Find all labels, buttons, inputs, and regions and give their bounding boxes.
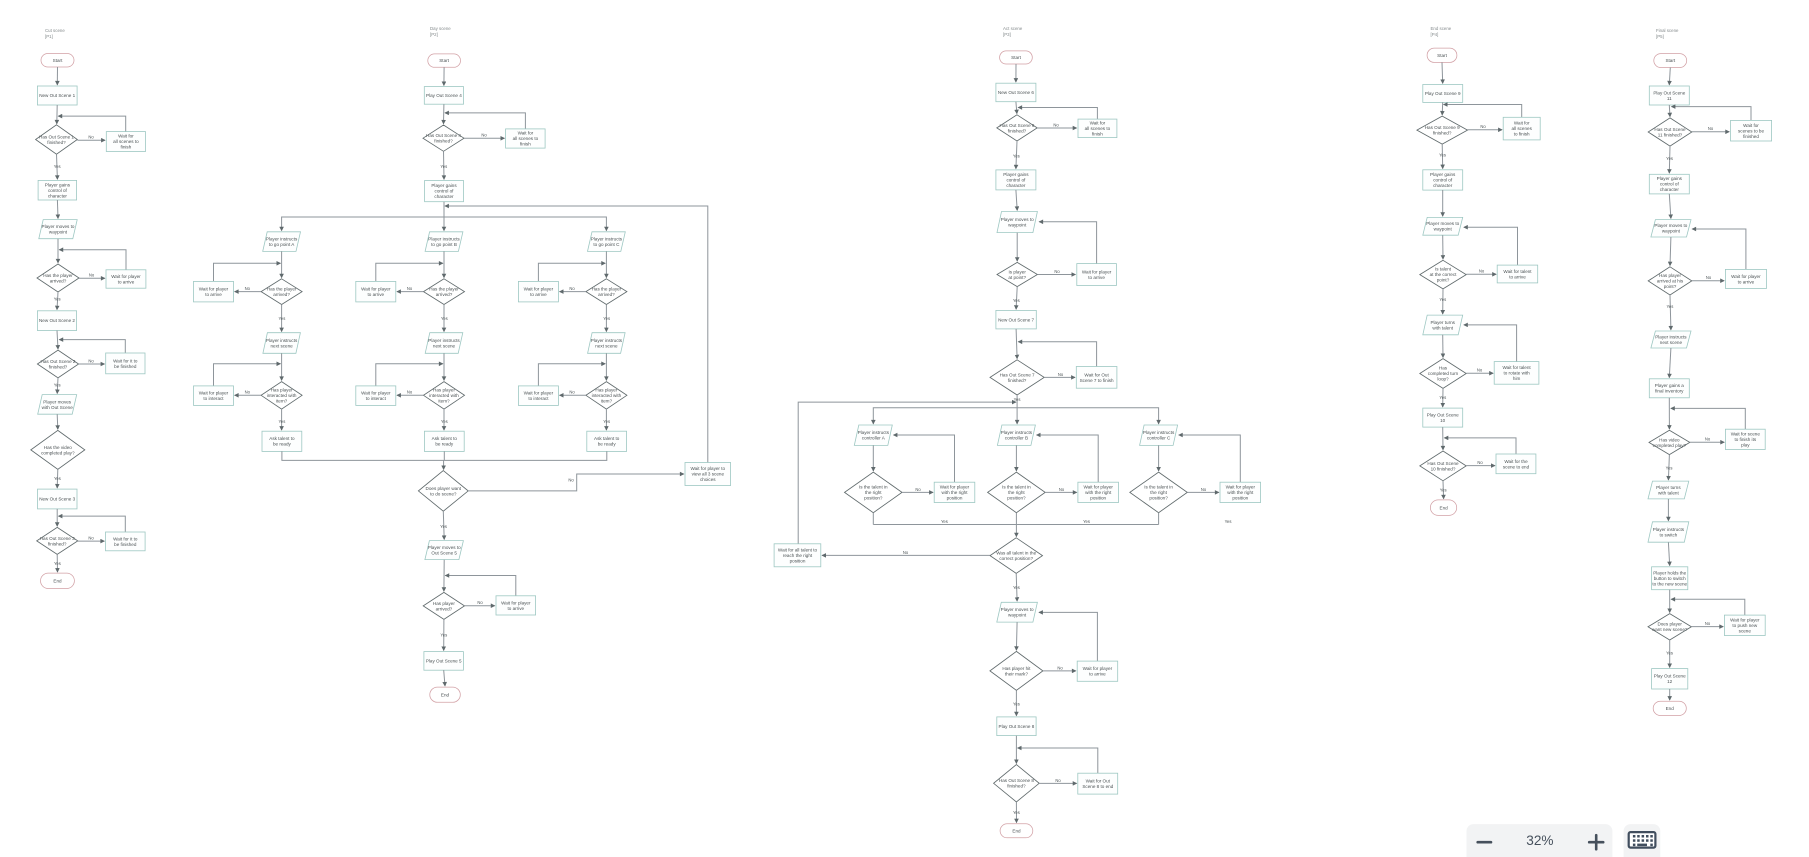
- svg-text:Yes: Yes: [1014, 397, 1021, 402]
- svg-text:Does player wantto do scene?: Does player wantto do scene?: [426, 486, 462, 497]
- svg-text:Has the videocompleted play?: Has the videocompleted play?: [41, 445, 75, 456]
- wire Yes down (flow 2 branch A d1): [281, 305, 283, 332]
- wire to decision (flow 3 d1): [1016, 102, 1017, 114]
- wire Yes stub (flow 3 branch A): [872, 513, 874, 525]
- process Wait for scenes to be finished (flow 5): [1731, 120, 1772, 141]
- data Player instructs next scene (flow 2 branch B): [425, 333, 463, 354]
- wire No to wait (flow 3 d6): [1039, 782, 1077, 784]
- process Wait for player to arrive (flow 3 lower): [1077, 661, 1118, 681]
- decision Is the talent in the right position? (flow 3 branch A): [845, 472, 903, 513]
- svg-text:End: End: [53, 578, 62, 583]
- wire Yes down (flow 1 d1): [56, 154, 59, 179]
- svg-text:No: No: [1053, 122, 1059, 127]
- decision Has Out Scene 9 finished? (flow 4): [1417, 116, 1468, 144]
- wire Yes down (flow 2 branch B d2): [443, 409, 445, 430]
- wire No to wait (flow 1 d1): [77, 139, 105, 141]
- svg-text:Yes: Yes: [1083, 519, 1090, 524]
- wire Yes down (flow 4 d2): [1442, 289, 1444, 314]
- process Player gains control of character (flow 3): [996, 170, 1036, 190]
- wire to waypoint data (flow 1): [56, 200, 59, 218]
- process Wait for player to arrive (flow 2 branch C): [518, 281, 558, 302]
- data Player instructs to go point B: [425, 232, 463, 252]
- wire data->decision2 (flow 2 branch A): [281, 353, 283, 380]
- data Player instructs next scene (flow 2 branch A): [263, 333, 301, 354]
- wire data->decision2 (flow 2 branch C): [605, 353, 607, 380]
- wire No to wait (flow 2 d2): [465, 605, 495, 607]
- wire loop wait->data right edge (flow 3 branch A): [894, 435, 955, 482]
- wire Yes down (flow 4 d3): [1442, 388, 1444, 407]
- decision Has Out Scene 1 finished? (flow 1): [36, 125, 78, 154]
- wire loop wait->data right edge (flow 3 lower): [1039, 612, 1097, 661]
- wire Start->Play Out Scene 11: [1669, 68, 1670, 85]
- decision Has the player arrived? (flow 2 branch A): [261, 279, 302, 305]
- wire Yes stub (flow 3 branch C): [1158, 513, 1160, 525]
- svg-text:No: No: [88, 135, 94, 140]
- wire merge->central decision (flow 2): [443, 460, 445, 469]
- wire No to wait (flow 3 lower d): [1043, 670, 1076, 672]
- process Player holds the button to switch to the new scene: [1652, 567, 1688, 590]
- wire Start->New Out Scene 6: [1015, 64, 1017, 82]
- wire split left branch (flow 3): [873, 408, 1017, 424]
- svg-text:End: End: [1440, 505, 1449, 510]
- wire data->decision (flow 3 branch C): [1158, 445, 1160, 471]
- svg-text:No: No: [1706, 275, 1712, 280]
- data Player moves to waypoint (flow 3 lower): [997, 602, 1038, 622]
- decision Has Out Scene 8 finished? (flow 3): [994, 765, 1040, 802]
- process Ask talent to be ready (flow 2 branch A): [262, 431, 302, 451]
- decision Has Out Scene 10 finished? (flow 4): [1420, 451, 1466, 481]
- process New Out Scene 3: [38, 489, 78, 509]
- process Player gains control of character (flow 5): [1649, 174, 1689, 194]
- wire to decision (flow 4 d4): [1442, 427, 1444, 450]
- data Player instructs controller C: [1140, 425, 1178, 445]
- svg-text:Wait for it tobe finished: Wait for it tobe finished: [113, 536, 138, 547]
- svg-text:End: End: [441, 692, 450, 697]
- wire to decision (flow 1 d3): [57, 331, 58, 350]
- terminator End (flow 4): [1430, 500, 1456, 516]
- process Wait for player with the right position (flow 3 branch B): [1078, 482, 1119, 502]
- wire loop wait->junction (flow 2 branch C d1): [538, 263, 605, 281]
- decision Has player arrived at his point? (flow 5): [1648, 267, 1692, 295]
- process Wait for player to arrive (flow 3 d2): [1077, 264, 1117, 286]
- process Wait for scene to finish its play (flow 5): [1725, 429, 1765, 449]
- wire data->decision (flow 3 branch A): [872, 445, 874, 471]
- process Wait for player to interact (flow 2 branch B): [356, 386, 396, 406]
- wire loop wait->junction (flow 4 d1): [1444, 105, 1522, 118]
- decision Has Out Scene 7 finished? (flow 3): [990, 360, 1044, 395]
- wire No to wait (flow 2 branch A d1): [235, 291, 261, 293]
- svg-text:Yes: Yes: [1013, 585, 1020, 590]
- process Wait for Out Scene 7 to finish: [1076, 367, 1117, 389]
- wire data->decision (flow 3 lower): [1015, 622, 1018, 650]
- wire No to wait (flow 2 d1): [464, 137, 504, 139]
- svg-text:No: No: [88, 536, 94, 541]
- wire split middle branch (flow 3): [1016, 395, 1018, 424]
- svg-text:Player instructsto go point A: Player instructsto go point A: [266, 237, 298, 248]
- wire No to wait (flow 3 branch C): [1187, 491, 1219, 493]
- svg-text:Player turnswith talent: Player turnswith talent: [1656, 485, 1681, 496]
- svg-text:Yes: Yes: [54, 561, 61, 566]
- wire to decision (flow 5 d1): [1668, 105, 1671, 117]
- decision Has Out Scene 6 finished? (flow 3): [997, 115, 1037, 141]
- svg-text:Yes: Yes: [1225, 519, 1232, 524]
- process Wait for all scenes to finish (flow 4): [1503, 117, 1540, 140]
- wire loop wait->junction (flow 3 d6): [1018, 748, 1098, 773]
- wire loop view-scenes box->junction (flow 2): [445, 206, 708, 463]
- wire to data (flow 4): [1442, 190, 1444, 216]
- svg-text:End: End: [1012, 828, 1021, 833]
- wire Yes down (flow 1 d2): [57, 292, 58, 310]
- wire Yes down (flow 2 branch C d1): [605, 305, 607, 332]
- decision Has Out Scene 2 finished? (flow 1): [37, 350, 78, 378]
- decision Has player interacted with item? (flow 2 branch B): [424, 382, 465, 410]
- decision Is talent at the correct point? (flow 4): [1420, 260, 1466, 289]
- wire No to wait (flow 2 branch C d2): [560, 394, 586, 396]
- process New Out Scene 2: [37, 311, 76, 331]
- wire data->process (flow 5 p4): [1668, 542, 1669, 565]
- keyboard icon: [1629, 832, 1656, 848]
- process Wait for all scenes to finish (flow 1): [106, 132, 145, 152]
- svg-text:Yes: Yes: [603, 419, 610, 424]
- wire loop wait->junction (flow 5 d3): [1671, 408, 1745, 429]
- wire No to wait (flow 3 branch B): [1045, 491, 1077, 493]
- svg-text:Yes: Yes: [1439, 395, 1446, 400]
- wire data->decision (flow 2 d2): [443, 560, 445, 592]
- process Play Out Scene 9: [1423, 85, 1463, 103]
- data Player instructs next scene (flow 5): [1651, 331, 1691, 348]
- process Wait for all talent to reach the right position: [774, 544, 821, 567]
- process Wait for talent to rotate with him (flow 4): [1494, 362, 1539, 385]
- wire loop wait->junction (flow 5 d1): [1672, 107, 1752, 121]
- wire Yes down to End (flow 4): [1442, 481, 1445, 499]
- decision Does talent want to do scene? (flow 2): [418, 471, 468, 512]
- terminator Start (flow 5): [1654, 54, 1687, 68]
- svg-text:New Out Scene 7: New Out Scene 7: [998, 317, 1034, 322]
- svg-text:Cut scene[P1]: Cut scene[P1]: [45, 28, 65, 39]
- svg-text:No: No: [1705, 621, 1711, 626]
- wire split middle branch (flow 2): [443, 202, 445, 231]
- decision Has player interacted with item? (flow 2 branch C): [586, 382, 627, 410]
- process Wait for all scenes to finish (flow 3): [1078, 119, 1117, 138]
- wire data->decision (flow 3 branch B): [1015, 445, 1017, 471]
- wire Yes down (flow 2 central): [442, 511, 445, 539]
- wire to decision (flow 5 d3): [1668, 398, 1670, 429]
- svg-text:End scene[P4]: End scene[P4]: [1431, 26, 1452, 37]
- svg-text:No: No: [1477, 460, 1483, 465]
- wire No to wait (flow 2 branch B d2): [397, 394, 424, 396]
- wire data->decision (flow 2 branch C): [605, 251, 607, 277]
- wire No to wait (flow 1 d3): [79, 363, 105, 365]
- wire data->decision (flow 4 d3): [1442, 335, 1444, 358]
- process Play Out Scene 12: [1652, 669, 1688, 689]
- process Wait for talent to arrive (flow 4): [1497, 265, 1538, 283]
- wire loop wait->junction (flow 1 d5): [59, 516, 126, 532]
- svg-text:Play Out Scene 9: Play Out Scene 9: [1425, 91, 1461, 96]
- svg-text:Has player hittheir mark?: Has player hittheir mark?: [1002, 666, 1031, 677]
- data Player instructs controller A: [854, 425, 892, 445]
- wire data->decision (flow 1 d2): [57, 239, 59, 263]
- process Play Out Scene 4: [424, 87, 463, 105]
- process Wait for it to be finished (flow 1 d5): [106, 532, 146, 551]
- keyboard shortcuts button background: [1624, 824, 1661, 857]
- data Player instructs to switch (flow 5): [1648, 522, 1689, 542]
- svg-text:Play Out Scene 5: Play Out Scene 5: [426, 659, 462, 664]
- wire No to wait (flow 4 d1): [1468, 129, 1503, 131]
- svg-text:Wait for thescene to end: Wait for thescene to end: [1503, 459, 1530, 470]
- wire Yes down (flow 4 d1): [1441, 144, 1444, 168]
- wire data->decision (flow 2 branch A): [281, 251, 283, 277]
- svg-text:Day scene[P2]: Day scene[P2]: [430, 26, 451, 37]
- terminator Start (flow 4): [1427, 48, 1457, 62]
- decision Has player interacted with item? (flow 2 branch A): [261, 382, 302, 410]
- svg-text:Start: Start: [1011, 55, 1021, 60]
- wire Yes down (flow 2 branch B d1): [443, 305, 445, 332]
- wire loop wait->data right edge (flow 3 d2): [1039, 222, 1096, 264]
- svg-text:End: End: [1666, 706, 1675, 711]
- svg-text:No: No: [569, 286, 575, 291]
- svg-text:No: No: [88, 358, 94, 363]
- wire Yes down (flow 3): [1015, 573, 1018, 601]
- wire Yes down (flow 3 d1): [1016, 141, 1017, 169]
- process Wait for player to interact (flow 2 branch C): [518, 386, 558, 406]
- decision Has Out Scene 11 finished? (flow 5): [1648, 118, 1692, 146]
- data Player moves to waypoint (flow 3): [997, 212, 1037, 233]
- svg-text:New Out Scene 6: New Out Scene 6: [998, 90, 1034, 95]
- svg-text:Start: Start: [439, 58, 449, 63]
- svg-text:No: No: [1479, 269, 1485, 274]
- wire data->data (flow 5): [1667, 499, 1669, 521]
- wire split right branch (flow 2): [444, 217, 606, 231]
- decision Has the player arrived? (flow 2 branch B): [424, 279, 465, 305]
- svg-text:Player moveswith Out Scene: Player moveswith Out Scene: [42, 399, 74, 410]
- wire Start->Play Out Scene 9: [1441, 62, 1444, 83]
- svg-text:No: No: [89, 273, 95, 278]
- svg-text:Yes: Yes: [54, 476, 61, 481]
- svg-text:Has Out Scene10 finished?: Has Out Scene10 finished?: [1427, 461, 1459, 472]
- svg-text:Player gainscontrol ofcharacte: Player gainscontrol ofcharacter: [1657, 176, 1683, 192]
- wire loop wait->junction (flow 2 branch C d2): [538, 364, 605, 386]
- terminator Start (flow 1): [41, 54, 74, 68]
- data Player moves to waypoint (flow 5): [1651, 220, 1691, 237]
- process Wait for player to arrive (flow 5): [1725, 269, 1766, 288]
- svg-text:Player gainscontrol ofcharacte: Player gainscontrol ofcharacter: [1430, 172, 1456, 188]
- wire data->decision2 (flow 2 branch B): [443, 353, 445, 380]
- svg-text:Player gainscontrol ofcharacte: Player gainscontrol ofcharacter: [1003, 172, 1029, 188]
- svg-text:Wait forall scenesto finish: Wait forall scenesto finish: [1511, 121, 1532, 137]
- svg-text:Play Out Scene 8: Play Out Scene 8: [999, 724, 1035, 729]
- svg-text:No: No: [245, 286, 251, 291]
- svg-text:New Out Scene 2: New Out Scene 2: [39, 318, 75, 323]
- wire No to wait (flow 4 d4): [1466, 465, 1495, 467]
- svg-text:Yes: Yes: [1666, 466, 1673, 471]
- wire Yes down (flow 2 d1): [443, 151, 446, 179]
- wire loop wait->junction (flow 3 big d): [1018, 342, 1096, 367]
- wire data->decision (flow 4 d2): [1442, 235, 1444, 259]
- wire Yes down (flow 2 branch C d2): [605, 409, 607, 430]
- process Wait for all scenes to finish (flow 2): [506, 129, 545, 148]
- wire loop wait->junction (flow 2 d2): [445, 576, 516, 596]
- wire Yes down (flow 2 branch A d2): [281, 409, 283, 430]
- decision Is the talent in the right position? (flow 3 branch B): [988, 472, 1046, 513]
- svg-text:Yes: Yes: [440, 632, 447, 637]
- data Player moves to waypoint (flow 1): [39, 220, 77, 239]
- wire No to wait (flow 5 d4): [1691, 626, 1723, 628]
- svg-text:No: No: [477, 600, 483, 605]
- svg-text:Yes: Yes: [603, 316, 610, 321]
- process Play Out Scene 8: [997, 717, 1036, 736]
- terminator End (flow 1): [41, 573, 75, 588]
- wire No to wait (flow 5 d2): [1692, 280, 1724, 282]
- svg-text:No: No: [1057, 665, 1063, 670]
- wire No to wait (flow 1 d5): [78, 540, 105, 542]
- svg-text:Yes: Yes: [441, 316, 448, 321]
- process Player gains control of character (flow 2): [425, 181, 464, 202]
- wire data->decision (flow 5 d2): [1669, 237, 1672, 266]
- wire Yes stub (flow 3 branch B): [1015, 513, 1017, 525]
- process Play Out Scene 10: [1423, 408, 1463, 427]
- wire to data (flow 5): [1669, 194, 1671, 219]
- svg-text:Is playerat point?: Is playerat point?: [1008, 269, 1026, 280]
- svg-text:Act scene[P3]: Act scene[P3]: [1003, 26, 1023, 37]
- svg-text:No: No: [1705, 437, 1711, 442]
- svg-text:No: No: [1058, 372, 1064, 377]
- data Player turns with talent (flow 5): [1648, 481, 1689, 499]
- svg-text:No: No: [569, 390, 575, 395]
- svg-text:Play Out Scene 4: Play Out Scene 4: [426, 93, 462, 98]
- svg-text:Yes: Yes: [54, 383, 61, 388]
- wire data->big decision (flow 1): [56, 414, 59, 429]
- process Player gains control of character (flow 4): [1423, 170, 1463, 190]
- svg-text:No: No: [568, 478, 574, 483]
- svg-text:Yes: Yes: [1013, 810, 1020, 815]
- wire loop wait->junction (flow 3 d1): [1018, 108, 1097, 120]
- data Player moves to Out Scene 5: [425, 541, 464, 560]
- svg-text:No: No: [1054, 269, 1060, 274]
- decision Has the player arrived? (flow 2 branch C): [586, 279, 627, 305]
- wire Yes down (flow 5 d3): [1668, 455, 1669, 480]
- svg-text:Player instructscontroller C: Player instructscontroller C: [1143, 430, 1175, 441]
- wire split left branch (flow 2): [282, 217, 444, 231]
- svg-text:Final scene[P5]: Final scene[P5]: [1656, 28, 1679, 39]
- svg-text:Yes: Yes: [440, 524, 447, 529]
- svg-text:Player instructsto go point B: Player instructsto go point B: [428, 237, 460, 248]
- process New Out Scene 7: [996, 310, 1036, 329]
- wire data->process (flow 5): [1669, 348, 1671, 378]
- wire to decision (flow 1 d5): [56, 509, 58, 526]
- process New Out Scene 1: [37, 86, 77, 105]
- data Player moves to waypoint (flow 4): [1423, 217, 1463, 235]
- zoom toolbar background: [1467, 824, 1613, 857]
- svg-text:Was all talent in thecorrect p: Was all talent in thecorrect position?: [996, 551, 1036, 562]
- decision Has the player arrived? (flow 1): [37, 264, 79, 292]
- svg-text:Yes: Yes: [1439, 297, 1446, 302]
- svg-text:No: No: [1477, 368, 1483, 373]
- decision Has completed turn loop? (flow 4): [1420, 359, 1466, 389]
- wire No to wait (flow 3 d1): [1037, 127, 1076, 129]
- wire loop wait->junction (flow 2 d1): [445, 113, 525, 129]
- data Player moves with Out Scene (flow 1): [38, 395, 77, 415]
- svg-text:No: No: [407, 286, 413, 291]
- terminator Start (flow 2): [428, 54, 461, 67]
- wire No to wait (flow 2 branch B d1): [397, 291, 424, 293]
- decision Has video completed play? (flow 5): [1649, 430, 1690, 454]
- svg-text:Yes: Yes: [441, 419, 448, 424]
- svg-text:No: No: [245, 390, 251, 395]
- wire loop wait->junction (flow 4 d4): [1444, 438, 1516, 454]
- process Wait for Out Scene 8 to end: [1078, 773, 1118, 794]
- decision Has player arrived? (flow 2 lower): [423, 592, 464, 619]
- process Wait for player to arrive (flow 2 lower): [496, 596, 536, 615]
- svg-text:Yes: Yes: [1013, 701, 1020, 706]
- svg-text:Yes: Yes: [278, 316, 285, 321]
- process Wait for the scene to end (flow 4): [1496, 454, 1536, 474]
- wire No to wait (flow 5 d3): [1690, 441, 1724, 443]
- svg-text:Yes: Yes: [1013, 154, 1020, 159]
- wire to End (flow 5): [1669, 689, 1671, 700]
- decision Has the video completed play? (flow 1): [31, 430, 85, 469]
- svg-text:New Out Scene 1: New Out Scene 1: [39, 93, 75, 98]
- process Play Out Scene 11: [1649, 86, 1689, 105]
- svg-text:Yes: Yes: [1666, 651, 1673, 656]
- wire loop wait->junction (flow 2 branch B d1): [376, 263, 443, 281]
- wire merge rail (flow 2): [282, 451, 607, 460]
- wire to decision (flow 2 d1): [443, 104, 445, 124]
- terminator End (flow 5): [1653, 701, 1686, 715]
- svg-text:Wait for it tobe finished: Wait for it tobe finished: [113, 358, 138, 369]
- zoom out minus button: [1478, 841, 1491, 844]
- wire to decision (flow 4 d1): [1441, 102, 1444, 115]
- wire loop wait->data right edge (flow 4 d2): [1464, 227, 1518, 265]
- wire Yes down (flow 3 lower d): [1015, 690, 1017, 715]
- svg-text:Player gains afinal inventory: Player gains afinal inventory: [1655, 383, 1685, 394]
- svg-text:Yes: Yes: [1666, 156, 1673, 161]
- svg-text:Yes: Yes: [440, 164, 447, 169]
- data Player instructs to go point A: [263, 232, 301, 252]
- wire Yes down (flow 1 d4): [56, 469, 59, 488]
- decision Has Out Scene 3 finished? (flow 1): [37, 527, 78, 554]
- svg-text:Yes: Yes: [1440, 488, 1447, 493]
- svg-text:Has Out Scene11 finished?: Has Out Scene11 finished?: [1654, 127, 1686, 138]
- svg-text:No: No: [481, 133, 487, 138]
- wire Yes down (flow 2 d2): [443, 619, 445, 650]
- zoom in plus button: [1589, 835, 1603, 849]
- decision Has player hit their mark? (flow 3): [990, 651, 1043, 690]
- wire merge->decision (flow 3): [1015, 525, 1017, 537]
- data Player turns with talent (flow 4): [1423, 315, 1463, 335]
- wire to big decision (flow 3): [1016, 329, 1017, 359]
- wire merge rail (flow 3): [873, 524, 1158, 526]
- wire Yes down (flow 5 d4): [1669, 640, 1671, 667]
- wire to decision (flow 5 d4): [1669, 590, 1671, 613]
- svg-text:No: No: [1055, 778, 1061, 783]
- wire to decision (flow 3 d6): [1015, 736, 1017, 764]
- svg-text:Start: Start: [1437, 53, 1447, 58]
- process Wait for it to be finished (flow 1 d3): [106, 353, 145, 374]
- svg-text:32%: 32%: [1526, 833, 1553, 848]
- wire loop wait->junction (flow 1 d3): [59, 340, 125, 353]
- wire No to wait (flow 3 branch A): [902, 491, 933, 493]
- process Wait for player to interact (flow 2 branch A): [194, 386, 234, 406]
- svg-text:Yes: Yes: [941, 519, 948, 524]
- svg-text:Yes: Yes: [278, 419, 285, 424]
- svg-text:Yes: Yes: [1013, 298, 1020, 303]
- svg-text:Player holds thebutton to swit: Player holds thebutton to switchto the n…: [1652, 570, 1687, 586]
- svg-text:Yes: Yes: [1439, 153, 1446, 158]
- process Ask talent to be ready (flow 2 branch C): [587, 431, 627, 451]
- decision Is the talent in the right position? (flow 3 branch C): [1130, 472, 1188, 513]
- svg-text:Player instructsto go point C: Player instructsto go point C: [591, 237, 623, 248]
- svg-text:Wait for OutScene 8 to end: Wait for OutScene 8 to end: [1082, 779, 1113, 790]
